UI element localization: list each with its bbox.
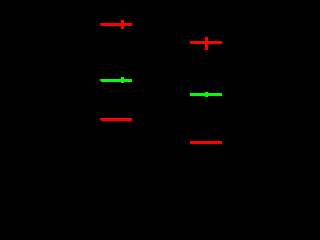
node A: red data point 1 (top-left), horizontal error bar xyxy=(101,23,133,26)
node D: green data point 2 (middle-right), horizontal error bar xyxy=(190,93,222,96)
node B: plus marker vertical tick xyxy=(205,37,208,50)
node B: red data point 2 (top-right), horizontal error bar xyxy=(190,41,222,44)
node C: plus marker vertical tick xyxy=(121,77,124,83)
node C: green data point 1 (middle-left), horizontal error bar xyxy=(101,79,133,82)
node A: plus marker vertical tick xyxy=(121,20,124,29)
node D: plus marker vertical tick xyxy=(205,92,208,97)
node C: left limit arrowhead xyxy=(99,79,101,81)
node E: red data point 3 (bottom-left), horizontal error bar xyxy=(101,118,133,121)
node E: left limit arrowhead xyxy=(99,118,101,120)
node A: left limit arrowhead xyxy=(99,23,101,25)
node F: red data point 4 (bottom-right), horizontal error bar xyxy=(190,141,222,144)
